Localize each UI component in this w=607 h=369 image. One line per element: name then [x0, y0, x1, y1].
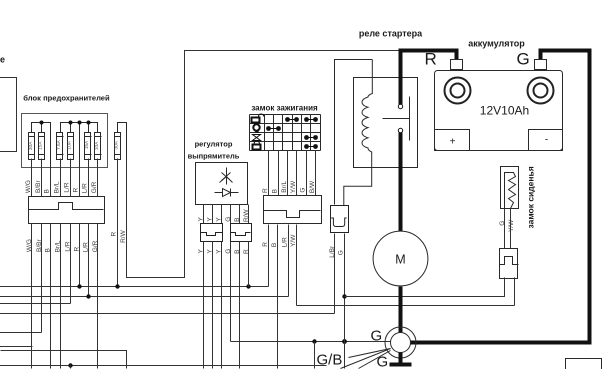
- wire G regulator lead: [230, 205, 232, 224]
- wire Y/W ignition lead: [296, 151, 298, 196]
- label B/Br lower: [36, 239, 43, 252]
- fuse F6 10A: [94, 133, 102, 160]
- switch contacts row4: [304, 144, 318, 149]
- wire L/R to left edge y=303.8: [0, 303, 71, 305]
- label Y lower: [198, 249, 205, 254]
- wire: pass-through leads to connector: [51, 168, 80, 197]
- svg-text:L/R: L/R: [281, 237, 288, 247]
- wire thick: motor to ground ring: [399, 287, 403, 334]
- svg-text:10A: 10A: [66, 140, 72, 149]
- switch contacts row1: [285, 117, 299, 122]
- relay coil L1: [344, 60, 373, 206]
- wire long horizontal y=365.4: [0, 365, 327, 367]
- wire B ignition lead: [278, 151, 280, 196]
- svg-text:Y/W: Y/W: [290, 234, 297, 247]
- svg-text:Y: Y: [198, 217, 205, 222]
- zener diode symbol: [220, 168, 233, 185]
- wire B below regulator connector: [239, 242, 241, 369]
- label B lower: [45, 248, 52, 252]
- label B/Br upper: [35, 180, 42, 193]
- label L/R lower: [82, 242, 89, 252]
- switch contacts row2: [266, 126, 281, 131]
- label Y: [216, 217, 223, 222]
- wire Br/L ignition lead: [287, 151, 289, 196]
- label G: [517, 50, 530, 69]
- partial box bottom-left: [1, 351, 127, 369]
- wire net R horizontal y=287: [0, 286, 269, 288]
- node dot on y=365.4 with stub: [68, 363, 72, 368]
- svg-text:аккумулятор: аккумулятор: [468, 39, 525, 49]
- svg-text:G/R: G/R: [91, 181, 98, 193]
- wire L/R from connector down: [70, 224, 72, 304]
- regulator U2 box: [196, 163, 248, 205]
- svg-text:B: B: [45, 248, 52, 252]
- svg-text:Y: Y: [198, 249, 205, 254]
- svg-text:B/W: B/W: [309, 180, 316, 193]
- wire G ignition lead: [306, 151, 308, 196]
- partial label "e" top-left: [0, 55, 5, 65]
- svg-text:Y/W: Y/W: [290, 180, 297, 193]
- battery label 12V10Ah: [480, 104, 529, 118]
- wire R from fuse F7 down: [117, 159, 119, 287]
- wire R ignition lead: [268, 151, 270, 196]
- wire coil top feed: [335, 60, 373, 205]
- svg-text:R: R: [74, 247, 81, 252]
- svg-text:R: R: [262, 242, 269, 247]
- svg-text:R: R: [262, 188, 269, 193]
- fuse F7 30A (main, outside box): [113, 133, 120, 160]
- label W/G lower: [26, 239, 33, 252]
- label Y: [207, 217, 214, 222]
- wire thick: relay contact to motor: [399, 133, 403, 233]
- svg-text:L/R: L/R: [82, 242, 89, 252]
- label Y lower: [216, 249, 223, 254]
- wire net L/R horizontal y=296: [0, 296, 289, 298]
- label B lower: [234, 250, 241, 254]
- node dot R/regulator: [246, 284, 250, 288]
- starter relay K1 box: [354, 78, 418, 168]
- svg-text:-: -: [545, 135, 548, 146]
- svg-text:L/R: L/R: [64, 182, 71, 192]
- connector X1 (fuse block connector): [29, 197, 105, 224]
- svg-text:Br/L: Br/L: [53, 181, 60, 193]
- battery + terminal box: [435, 130, 470, 151]
- wire: fuse lead down x=88: [88, 159, 90, 197]
- wire: fuse lead down x=97.9: [97, 159, 99, 197]
- svg-text:B: B: [271, 243, 278, 247]
- wire R below ignition connector: [268, 225, 270, 287]
- label G (below ring): [377, 354, 389, 369]
- label B: [234, 218, 241, 222]
- label G: [225, 217, 232, 222]
- connector X5 (relay coil / L Br + G): [331, 206, 349, 233]
- svg-text:Y: Y: [207, 249, 214, 254]
- svg-text:10A: 10A: [94, 141, 100, 150]
- wire G to seat lock connector y=296.5: [345, 278, 505, 297]
- svg-text:12V10Ah: 12V10Ah: [480, 104, 529, 118]
- svg-text:R/W: R/W: [120, 229, 127, 243]
- connector X4 (ignition): [264, 196, 322, 224]
- svg-text:Y: Y: [216, 217, 223, 222]
- svg-text:W/G: W/G: [25, 180, 32, 193]
- svg-text:L/Br: L/Br: [329, 245, 336, 258]
- wire G below connector to ground net: [344, 234, 346, 369]
- label G/R upper: [91, 181, 98, 193]
- svg-text:G: G: [225, 217, 232, 222]
- svg-text:R/W: R/W: [243, 209, 250, 223]
- svg-text:R: R: [73, 188, 80, 193]
- motor M1: [373, 231, 428, 286]
- label R lower: [243, 249, 250, 254]
- svg-text:7.5A: 7.5A: [56, 139, 62, 150]
- svg-text:G/B: G/B: [317, 352, 343, 369]
- wire R below regulator connector: [248, 242, 250, 287]
- svg-text:30A: 30A: [28, 141, 34, 150]
- fuse block outer box: [22, 114, 108, 168]
- svg-text:B/Br: B/Br: [35, 180, 42, 193]
- node dot G / seat feed: [342, 294, 346, 298]
- label R/W: [243, 209, 250, 223]
- battery title: [468, 39, 525, 49]
- svg-text:R: R: [111, 232, 118, 237]
- label R/W: [120, 229, 127, 243]
- label R upper: [73, 188, 80, 193]
- battery GB1 box: [435, 71, 563, 151]
- node dot R/fuse7: [115, 284, 119, 288]
- wire thick R: relay contact to battery +: [401, 51, 457, 105]
- wire: fuse lead down x=41.7: [41, 159, 43, 197]
- label L/Br: [329, 245, 336, 258]
- wire: fuse lead down x=60.1: [60, 159, 62, 197]
- wire Y/W seat lead: [510, 209, 512, 249]
- label Y/W: [508, 219, 515, 232]
- starter relay title: [359, 29, 423, 39]
- wire: fuse pair2+3 top bracket: [61, 123, 98, 168]
- label Y/W lower: [290, 234, 297, 247]
- connector X3 (regulator right): [231, 224, 252, 242]
- wire L/Br below connector: [334, 234, 336, 314]
- wire to left edge y=346: [0, 346, 33, 348]
- fuse F4 10A: [66, 133, 73, 160]
- node dot L/R: [86, 294, 90, 298]
- svg-text:W/G: W/G: [26, 239, 33, 252]
- wire: fuse pair1 top bracket: [32, 123, 51, 168]
- icon: ignition on (row2): [253, 124, 259, 133]
- battery - terminal box: [529, 130, 563, 151]
- label G: [300, 188, 307, 193]
- wire Br/L from connector down: [60, 224, 62, 369]
- switch contacts row3: [304, 135, 318, 140]
- label G: [337, 250, 344, 255]
- wire B/Br to left edge y=332: [0, 332, 42, 334]
- label L/R upper: [81, 183, 88, 193]
- label Br/L lower: [54, 240, 61, 252]
- regulator title: [188, 140, 240, 161]
- battery terminal post +: [445, 60, 471, 104]
- svg-text:L/R: L/R: [65, 241, 72, 251]
- svg-text:Y/W: Y/W: [508, 219, 515, 232]
- svg-text:G: G: [371, 328, 383, 345]
- label R: [425, 50, 437, 69]
- wire B below ignition connector: [277, 225, 279, 369]
- wire R from connector down: [79, 224, 81, 287]
- node: junction dot between pairs: [78, 121, 82, 125]
- wire thick below ring: [399, 353, 403, 363]
- label G/R lower: [92, 240, 99, 252]
- wire B from connector down: [50, 224, 52, 369]
- label Y lower: [207, 249, 214, 254]
- svg-text:Br/L: Br/L: [54, 240, 61, 252]
- node: junction dot fuse F4 top: [69, 121, 73, 125]
- node dot G seat-lock junction: [342, 339, 347, 344]
- node dot G stub: [312, 339, 316, 368]
- fuse F2 15A: [38, 133, 45, 160]
- label B: [271, 189, 278, 193]
- ignition switch S1 grid: [250, 115, 321, 151]
- svg-text:B: B: [234, 250, 241, 254]
- label L/R lower: [281, 237, 288, 247]
- label R lower: [74, 247, 81, 252]
- wire L/Br to left edge y=313.7: [0, 313, 335, 315]
- svg-text:L/R: L/R: [81, 183, 88, 193]
- fuse F5 15A: [84, 133, 92, 160]
- wire Y regulator lead: [221, 205, 223, 224]
- svg-text:замок сиденья: замок сиденья: [526, 166, 536, 228]
- label G: [499, 221, 506, 226]
- partial box left edge (flasher relay, cut off): [0, 78, 17, 152]
- svg-text:B/Br: B/Br: [36, 239, 43, 252]
- seat lock S2 box: [501, 167, 519, 209]
- fuse F3 7.5A: [56, 133, 63, 160]
- svg-text:G: G: [337, 250, 344, 255]
- wire Y/W to seat lock y=305.3: [297, 278, 515, 306]
- label L/R lower: [65, 241, 72, 251]
- node: junction dot fuse F5 top: [87, 121, 91, 125]
- wire L/R below ignition connector: [288, 225, 290, 297]
- label Y: [198, 217, 205, 222]
- svg-text:G: G: [300, 188, 307, 193]
- wire Y regulator lead: [203, 205, 205, 224]
- label L/R upper: [64, 182, 71, 192]
- wire W/G from connector down: [31, 224, 33, 369]
- label G (ring left): [371, 328, 383, 345]
- wire B/W ignition lead: [315, 151, 317, 196]
- svg-text:блок предохранителей: блок предохранителей: [23, 94, 110, 103]
- wire: fuse F7 top bracket to R/W: [118, 123, 127, 159]
- fuse block title: [23, 94, 110, 103]
- ground bar: [390, 363, 412, 367]
- svg-text:B: B: [234, 218, 241, 222]
- svg-text:15A: 15A: [38, 141, 44, 150]
- fuse F1 30A: [28, 133, 35, 160]
- svg-text:замок зажигания: замок зажигания: [251, 104, 318, 113]
- label R (fuse F7 wire): [111, 232, 118, 237]
- svg-text:выпрямитель: выпрямитель: [188, 152, 240, 161]
- svg-text:Br/L: Br/L: [281, 180, 288, 192]
- node: junction dot fuse F2 top: [40, 121, 44, 125]
- svg-text:30A: 30A: [113, 140, 119, 149]
- wire G below regulator connector: [230, 242, 232, 342]
- label R: [262, 188, 269, 193]
- svg-text:G/R: G/R: [92, 240, 99, 252]
- label B/W: [309, 180, 316, 193]
- icon: steering lock (row3): [253, 135, 261, 142]
- svg-text:B: B: [44, 189, 51, 193]
- wire: fuse lead down x=31.8: [31, 159, 33, 197]
- svg-text:+: +: [450, 137, 456, 148]
- label B lower: [271, 243, 278, 247]
- svg-text:G: G: [517, 50, 530, 69]
- ground ring (frame bundle): [385, 327, 416, 358]
- svg-text:регулятор: регулятор: [195, 140, 233, 149]
- label B upper: [44, 189, 51, 193]
- svg-text:G: G: [499, 221, 506, 226]
- diode symbol: [215, 189, 239, 197]
- svg-text:Y: Y: [207, 217, 214, 222]
- svg-text:15A: 15A: [84, 140, 90, 149]
- wire G/R from connector down: [97, 224, 99, 369]
- label R lower: [262, 242, 269, 247]
- ignition switch title: [251, 104, 318, 113]
- connector X2 (regulator left): [201, 224, 223, 242]
- wire Y/W below ignition connector: [296, 225, 298, 306]
- svg-text:Y: Y: [216, 249, 223, 254]
- wire Y below regulator connector: [212, 242, 214, 369]
- wire Y regulator lead: [212, 205, 214, 224]
- wire thick G: battery - to right edge down to ground ring: [411, 51, 590, 343]
- wire G seat lead: [504, 209, 506, 249]
- svg-text:M: M: [395, 253, 405, 267]
- label G/B with leaders: [317, 349, 391, 369]
- label W/G upper: [25, 180, 32, 193]
- battery terminal post -: [528, 60, 554, 104]
- relay contact fixed blade: [383, 97, 410, 141]
- wire B regulator lead: [239, 205, 241, 224]
- svg-text:реле стартера: реле стартера: [359, 29, 423, 39]
- svg-text:G: G: [225, 249, 232, 254]
- icon: open padlock (row1): [252, 114, 264, 123]
- svg-text:R: R: [425, 50, 437, 69]
- node dot R/fuse: [77, 284, 81, 288]
- label Y/W: [290, 180, 297, 193]
- label G lower: [225, 249, 232, 254]
- label Br/L: [281, 180, 288, 192]
- icon: closed padlock (row4): [253, 141, 261, 150]
- connector X6 (seat lock): [500, 249, 519, 279]
- svg-text:R: R: [243, 249, 250, 254]
- svg-text:е: е: [0, 55, 5, 65]
- seat lock title (rotated): [526, 166, 536, 228]
- wire G regulator to ground ring y=341.7: [231, 341, 391, 343]
- switch contacts row1: [304, 117, 318, 122]
- relay contact terminals: [398, 104, 402, 132]
- wire Y below regulator connector: [203, 242, 205, 369]
- box bottom right (cut off): [566, 359, 602, 369]
- wire B/Br from connector down: [41, 224, 43, 333]
- wire R/W loop: down, right, up to relay feed: [127, 51, 401, 278]
- svg-text:G: G: [377, 354, 389, 369]
- wire: fuse lead down x=70.3: [70, 159, 72, 197]
- label Br/L upper: [53, 181, 60, 193]
- wire R/W regulator lead: [248, 205, 250, 224]
- wire Y below regulator connector: [221, 242, 223, 369]
- svg-text:B: B: [271, 189, 278, 193]
- wire L/R from connector down: [88, 224, 90, 297]
